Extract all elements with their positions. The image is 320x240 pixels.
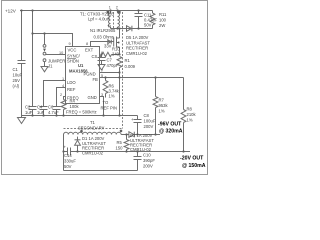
capacitor C1 <box>18 61 26 116</box>
svg-text:ULTRAFAST: ULTRAFAST <box>126 40 150 45</box>
capacitor C8 <box>134 116 142 135</box>
transformer T1 primary winding 1 <box>109 11 111 29</box>
wire VCC branch <box>33 34 73 47</box>
wire LDO <box>44 81 66 107</box>
svg-text:25V: 25V <box>13 78 21 83</box>
svg-text:390pF: 390pF <box>143 158 155 163</box>
wire drain bus <box>111 28 153 30</box>
capacitor C14 <box>68 148 71 156</box>
svg-text:FREQ = 500kHz: FREQ = 500kHz <box>66 110 97 115</box>
svg-text:EXT: EXT <box>85 48 94 53</box>
ground rail <box>22 115 138 117</box>
svg-text:LDO: LDO <box>67 80 76 85</box>
transistor N1 MOSFET <box>114 29 120 55</box>
svg-text:C2: C2 <box>25 105 31 110</box>
svg-text:R1: R1 <box>125 58 131 63</box>
transformer core long dash line <box>122 12 124 129</box>
svg-text:TO: TO <box>103 100 109 105</box>
svg-text:@ 320mA: @ 320mA <box>159 129 183 135</box>
svg-text:R8: R8 <box>187 107 193 112</box>
transformer core dashes <box>113 12 115 28</box>
capacitor C6 <box>53 107 61 116</box>
svg-text:50V: 50V <box>144 23 152 28</box>
resistor R1 <box>117 57 122 116</box>
wire secondary return rail <box>64 170 138 172</box>
phase dot primary 1 <box>107 11 110 14</box>
svg-text:(Al): (Al) <box>13 84 20 89</box>
svg-text:200V: 200V <box>143 164 153 169</box>
svg-text:240: 240 <box>112 52 120 57</box>
svg-text:+12V: +12V <box>5 9 17 14</box>
svg-text:C6: C6 <box>48 105 54 110</box>
svg-text:10uF: 10uF <box>13 73 23 78</box>
svg-text:SHDN: SHDN <box>67 59 79 64</box>
svg-text:R4: R4 <box>70 99 76 104</box>
svg-text:0.03 Ohms: 0.03 Ohms <box>94 34 114 39</box>
svg-text:N1 IRLR2905: N1 IRLR2905 <box>90 28 116 33</box>
svg-text:10: 10 <box>59 51 63 55</box>
svg-text:VCC: VCC <box>68 48 77 53</box>
wire FREQ <box>64 97 66 100</box>
svg-text:100: 100 <box>159 18 167 23</box>
svg-text:RECTIFIER: RECTIFIER <box>126 46 148 51</box>
transformer T1 secondary winding <box>64 132 122 134</box>
svg-text:D5 1A 200V: D5 1A 200V <box>126 35 149 40</box>
svg-text:C8: C8 <box>144 113 150 118</box>
wire jumper column <box>44 34 46 45</box>
svg-text:8: 8 <box>86 42 88 46</box>
svg-text:100uF: 100uF <box>144 119 156 124</box>
svg-text:PGND: PGND <box>84 72 96 77</box>
svg-text:CMR1U-02: CMR1U-02 <box>82 150 104 155</box>
wire REF <box>57 88 66 107</box>
svg-text:R5: R5 <box>117 140 123 145</box>
svg-text:FB: FB <box>93 77 99 82</box>
svg-text:1%: 1% <box>109 94 115 99</box>
svg-text:200V: 200V <box>144 124 154 129</box>
svg-text:SECONDARY: SECONDARY <box>78 125 105 130</box>
svg-text:C1: C1 <box>13 67 19 72</box>
diode D2 <box>129 132 134 138</box>
wire -20V output run <box>71 151 190 153</box>
svg-text:-20V OUT: -20V OUT <box>180 156 204 162</box>
phase dot winding 2 <box>118 11 121 14</box>
border frame <box>2 1 208 175</box>
node +12V input rail <box>20 10 153 12</box>
svg-text:1: 1 <box>62 77 64 81</box>
capacitor C4 <box>40 107 48 116</box>
wire GND pin <box>100 97 104 116</box>
capacitor C11 <box>135 11 143 29</box>
svg-text:REF: REF <box>67 87 76 92</box>
svg-text:3: 3 <box>101 93 103 97</box>
zener 33V on gate <box>108 40 112 44</box>
svg-text:R11: R11 <box>159 12 167 17</box>
pin VCC lead <box>72 34 74 47</box>
svg-text:CMR1U-02: CMR1U-02 <box>130 147 152 152</box>
svg-text:100k: 100k <box>70 104 80 109</box>
resistor R5 <box>124 135 129 152</box>
wire -20V output <box>64 151 68 153</box>
pin EXT lead / gate wire <box>91 42 114 47</box>
svg-text:2: 2 <box>60 93 62 97</box>
svg-text:0.009: 0.009 <box>125 64 136 69</box>
svg-text:470pF: 470pF <box>107 63 119 68</box>
svg-text:J1: J1 <box>48 64 53 69</box>
svg-text:7: 7 <box>101 69 103 73</box>
phase dot secondary <box>120 130 123 133</box>
transformer core dash to secondary <box>64 128 123 130</box>
svg-text:Lpf = 4.0uH: Lpf = 4.0uH <box>88 17 110 22</box>
svg-text:1uF: 1uF <box>37 110 45 115</box>
svg-text:953k: 953k <box>159 103 169 108</box>
wire C1 column <box>21 11 23 61</box>
svg-text:330uF: 330uF <box>64 159 76 164</box>
svg-text:210k: 210k <box>187 112 197 117</box>
wire FB <box>100 77 184 79</box>
transformer T1 winding 2 <box>118 11 120 29</box>
svg-text:50V: 50V <box>64 164 72 169</box>
svg-text:5: 5 <box>101 74 103 78</box>
resistor R4 <box>61 100 66 116</box>
svg-text:9: 9 <box>69 42 71 46</box>
capacitor C2 <box>29 107 37 116</box>
svg-text:CMR1U-02: CMR1U-02 <box>126 51 148 56</box>
capacitor C7 <box>98 55 106 61</box>
resistor R8 <box>181 78 186 152</box>
svg-text:C7: C7 <box>107 58 113 63</box>
wire SYNC <box>46 54 66 56</box>
resistor R11 <box>150 11 155 29</box>
resistor R7 <box>153 78 158 135</box>
svg-text:33V: 33V <box>104 44 112 49</box>
svg-text:2W: 2W <box>159 23 165 28</box>
resistor R10 <box>100 52 120 56</box>
svg-text:6: 6 <box>101 51 103 55</box>
ground C7 <box>98 61 105 71</box>
svg-text:T1: T1 <box>90 120 96 125</box>
jumper J1 <box>43 45 46 62</box>
ground main <box>18 116 26 124</box>
wire VCC / C2 column <box>32 11 34 107</box>
svg-text:CS: CS <box>92 54 98 59</box>
svg-text:GND: GND <box>88 95 97 100</box>
svg-text:4.7uF: 4.7uF <box>48 110 59 115</box>
ground J1 <box>41 62 48 72</box>
svg-text:R7: R7 <box>159 98 165 103</box>
svg-text:1: 1 <box>109 6 111 10</box>
svg-text:C4: C4 <box>37 105 43 110</box>
svg-text:U1: U1 <box>78 63 84 68</box>
wire -48V output <box>121 134 129 136</box>
svg-text:-96V OUT: -96V OUT <box>158 122 182 128</box>
wire secondary left leg <box>63 135 65 171</box>
wire PGND <box>100 72 120 74</box>
diode D5 <box>127 26 132 32</box>
svg-text:REF PIN: REF PIN <box>101 106 118 111</box>
op-amp U1 MAX1856 box <box>66 47 100 104</box>
phase dot secondary tap <box>80 130 83 133</box>
svg-text:@ 150mA: @ 150mA <box>182 163 206 169</box>
diode D1 <box>75 137 81 152</box>
svg-text:4: 4 <box>62 84 64 88</box>
svg-text:1%: 1% <box>159 109 165 114</box>
svg-text:1uF: 1uF <box>25 110 33 115</box>
svg-text:C14: C14 <box>64 153 72 158</box>
capacitor C10 <box>134 152 142 171</box>
svg-text:2: 2 <box>116 6 118 10</box>
svg-text:C10: C10 <box>143 153 151 158</box>
resistor R6 <box>103 78 108 98</box>
svg-text:1%: 1% <box>187 118 193 123</box>
svg-text:150: 150 <box>116 145 124 150</box>
